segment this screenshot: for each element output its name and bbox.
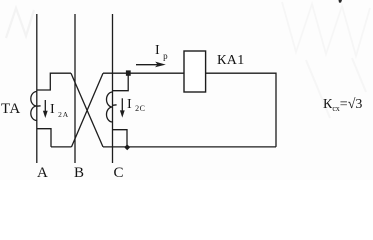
winding A junction tick — [37, 105, 41, 107]
label C — [114, 165, 124, 182]
wire bottom bus left segment — [51, 146, 72, 148]
arrow Ip (relay current) — [136, 64, 158, 66]
watermark squiggle right-mid — [306, 58, 366, 118]
watermark squiggle top-left — [6, 8, 34, 38]
label KA1 — [217, 53, 245, 69]
wire relay to right loop — [206, 73, 276, 147]
node: junction dot on top bus — [126, 70, 131, 75]
watermark squiggle top-right — [282, 2, 370, 56]
relay coil box KA1 — [184, 51, 206, 92]
label B — [74, 165, 84, 182]
phase line B — [74, 14, 76, 163]
wire C-bottom: right then down to bottom bus — [113, 130, 128, 147]
wire A-bottom: from winding bottom right, down — [37, 129, 51, 147]
label Ksch formula — [323, 97, 362, 113]
label I2a — [50, 102, 69, 119]
wire X diagonal 1 (A-top to bottom bus) — [71, 73, 103, 147]
label I2c — [127, 97, 146, 113]
label TA — [1, 101, 20, 118]
wire A-top: from winding top right, up, right — [37, 73, 71, 90]
label Ip — [155, 43, 168, 61]
arrow I2a (down) — [44, 100, 46, 112]
CT winding TA-A (two arcs on phase A) — [31, 92, 37, 121]
wire C-top: right then up to top bus — [113, 73, 129, 91]
top edge speck — [339, 0, 343, 3]
wire bottom bus right segment — [103, 146, 276, 148]
phase line C — [112, 14, 114, 163]
wire X diagonal 2 (bottom-left to top bus) — [72, 73, 104, 147]
arrow I2c (down) — [121, 98, 123, 111]
node: diamond junction on bottom bus — [124, 144, 130, 150]
wire top bus to relay — [103, 72, 184, 74]
phase line A — [36, 14, 38, 163]
CT winding TA-C (two arcs on phase C) — [107, 92, 113, 122]
winding C junction tick — [113, 104, 117, 107]
label A — [37, 165, 48, 182]
